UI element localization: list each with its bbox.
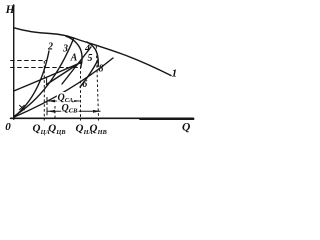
dashed vertical at Qcb (54, 106, 56, 120)
y-axis H (13, 5, 15, 119)
pump curve 1 (14, 28, 171, 76)
dashed vertical at Qha (80, 62, 82, 121)
svg-text:0: 0 (5, 121, 11, 133)
white boxes behind dim labels (57, 92, 74, 101)
svg-text:2: 2 (47, 41, 53, 52)
branch arc 4 (66, 36, 82, 67)
long curve 6 (14, 58, 113, 117)
tick at S1b start (46, 78, 48, 85)
steep line 4 (62, 47, 91, 84)
shallow curve S1 (14, 63, 81, 92)
short line S1b (47, 62, 82, 85)
dashed vertical at Qhb (96, 46, 98, 122)
svg-text:A: A (70, 52, 78, 63)
svg-text:Q: Q (182, 121, 190, 133)
svg-text:3: 3 (62, 43, 68, 54)
steep line 5 (80, 60, 98, 87)
svg-text:8: 8 (99, 64, 104, 75)
svg-text:H: H (5, 4, 16, 16)
svg-text:1: 1 (172, 67, 178, 79)
dashed horizontal h1 (10, 60, 46, 62)
dimension line Qcb (47, 107, 101, 115)
system parabola 2 (14, 51, 49, 117)
dashed horizontal h2 (10, 67, 81, 69)
svg-text:6: 6 (82, 79, 87, 90)
branch arc 5 (87, 42, 98, 67)
node cross at junction (20, 105, 25, 109)
svg-text:5: 5 (88, 53, 93, 64)
x-axis Q (11, 117, 194, 119)
x-axis right thick segment (140, 118, 194, 120)
system parabola 3 (15, 39, 74, 116)
dashed construction lines (10, 46, 98, 122)
dashed vertical at Qca (43, 61, 45, 121)
dimension line Qca (47, 97, 80, 105)
